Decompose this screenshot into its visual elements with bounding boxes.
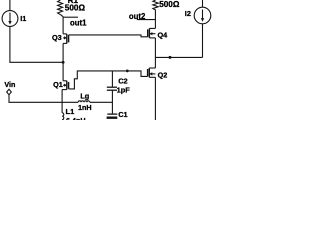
svg-text:out2: out2 <box>129 12 146 21</box>
transistor Q3 <box>63 34 69 44</box>
wire I1 top <box>9 0 11 11</box>
inductor L1 <box>62 113 64 123</box>
node dot on I2 wire <box>169 56 172 59</box>
wire I1 bottom to junction <box>10 26 63 62</box>
svg-text:C1: C1 <box>118 110 127 119</box>
svg-text:Lg: Lg <box>80 91 89 100</box>
node out2 stub <box>137 19 156 21</box>
svg-text:L1: L1 <box>66 107 75 116</box>
wire I2 bottom <box>202 24 204 58</box>
wire C2 to C1 <box>111 90 113 114</box>
svg-text:Vin: Vin <box>4 80 15 89</box>
svg-text:500Ω: 500Ω <box>65 3 86 12</box>
svg-text:Q2: Q2 <box>158 71 168 80</box>
node out1 stub <box>63 16 78 18</box>
transistor Q1 <box>62 62 69 89</box>
wire I2 top <box>202 0 204 7</box>
port Vin diamond <box>7 89 12 95</box>
wire Q1 source down through L1 <box>61 90 63 113</box>
inductor Lg <box>78 101 90 102</box>
svg-text:1pF: 1pF <box>117 85 131 94</box>
transistor Q2 <box>148 68 156 77</box>
wire Q4 source rail down to Q2 <box>154 38 156 68</box>
resistor R2 <box>153 0 158 10</box>
capacitor C2 <box>107 87 117 90</box>
svg-text:Q1: Q1 <box>53 80 63 89</box>
svg-text:500Ω: 500Ω <box>159 0 180 9</box>
svg-text:I2: I2 <box>185 9 191 18</box>
I1 arrow <box>8 13 11 25</box>
capacitor C1 <box>107 114 118 118</box>
wire R2 to Q4 <box>154 10 156 28</box>
current source I2 <box>194 7 211 24</box>
wire Q3 gate to Q4 gate <box>69 35 148 37</box>
svg-text:6.4nH: 6.4nH <box>66 116 86 120</box>
svg-text:Q4: Q4 <box>158 31 169 40</box>
svg-text:I1: I1 <box>20 14 26 23</box>
wire Q1 gate path <box>69 71 148 89</box>
current source I1 <box>2 11 18 27</box>
wire Vin down and right <box>9 95 78 103</box>
wire Lg to C junction <box>90 101 113 103</box>
transistor Q4 <box>148 28 156 38</box>
I2 arrow <box>201 10 204 22</box>
node junction dot <box>62 61 65 64</box>
svg-text:Q3: Q3 <box>52 33 62 42</box>
svg-text:1nH: 1nH <box>78 103 92 112</box>
wire I2 bottom horizontal <box>155 56 202 58</box>
wire Q3 source down <box>62 43 64 62</box>
svg-text:out1: out1 <box>70 18 87 27</box>
wire R1 to Q3 <box>62 17 64 34</box>
node dot on gate wire <box>126 70 129 73</box>
wire branch to C2 <box>111 71 113 87</box>
wire Q2 source down <box>154 77 156 120</box>
svg-text:C2: C2 <box>118 76 127 85</box>
resistor R1 <box>58 0 64 17</box>
